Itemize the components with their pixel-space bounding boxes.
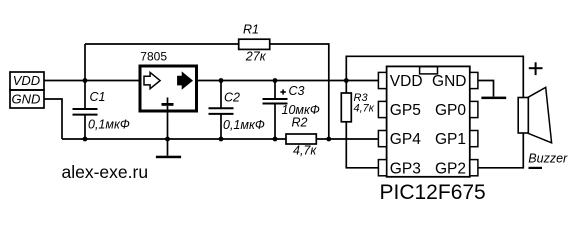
buzzer plus sign <box>529 62 543 75</box>
resistor R2 <box>286 134 316 144</box>
svg-text:GP3: GP3 <box>390 160 421 177</box>
svg-text:GP5: GP5 <box>390 102 421 119</box>
buzzer speaker cone <box>528 87 551 143</box>
wire R3 bottom to GP3 pin <box>346 122 378 168</box>
wire node A to GP4 pin <box>316 138 378 140</box>
svg-text:10мкФ: 10мкФ <box>282 103 320 117</box>
svg-text:C2: C2 <box>224 91 240 105</box>
capacitor C2 plates <box>209 108 234 114</box>
IC pin 8 GND tab <box>470 72 478 88</box>
svg-text:4,7к: 4,7к <box>354 103 375 115</box>
connector X1 VDD pin box <box>10 72 44 90</box>
wire VDD input: connector to 7805 input <box>44 80 140 82</box>
svg-text:0,1мкФ: 0,1мкФ <box>88 118 130 132</box>
wire GND pin to ground symbol <box>478 81 494 97</box>
node dot C1 top <box>83 78 88 83</box>
svg-text:GND: GND <box>432 73 466 90</box>
IC pin GP2 tab <box>470 160 478 176</box>
capacitor C3 polarity plus <box>280 89 285 94</box>
node dot C2 top <box>219 78 224 83</box>
node dot divider node A <box>326 137 331 142</box>
wire C2 vertical lower <box>220 114 222 139</box>
wire C2 vertical upper <box>220 81 222 109</box>
buzzer minus sign <box>529 167 543 169</box>
svg-text:GP4: GP4 <box>390 131 421 148</box>
wire top branch to R1 <box>85 43 239 45</box>
wire C3 vertical upper <box>274 81 276 100</box>
IC PIC12F675 body <box>387 66 470 176</box>
wire ground rail <box>62 138 286 140</box>
svg-text:PIC12F675: PIC12F675 <box>380 181 486 204</box>
resistor R1 <box>239 39 270 49</box>
node dot C3 top <box>273 78 278 83</box>
svg-text:4,7к: 4,7к <box>293 143 317 157</box>
regulator U1 internal ground pin <box>162 98 174 140</box>
wire R1 right to node A <box>270 44 329 139</box>
IC pin GP4 tab <box>378 131 386 147</box>
wire buzzer + feed riser and top run <box>346 56 523 97</box>
wire C1 vertical lower <box>84 115 86 139</box>
svg-text:R2: R2 <box>292 115 308 129</box>
regulator U1 output arrow (filled) <box>178 72 193 88</box>
IC pin GP5 tab <box>378 101 386 117</box>
svg-text:VDD: VDD <box>390 73 423 90</box>
svg-text:C1: C1 <box>90 90 106 104</box>
svg-text:0,1мкФ: 0,1мкФ <box>223 118 265 132</box>
node dot R3 top / buzzer feed <box>344 78 349 83</box>
junction dots <box>83 78 349 141</box>
ground symbol near PIC GND pin <box>481 97 506 100</box>
svg-text:alex-exe.ru: alex-exe.ru <box>62 162 149 182</box>
node dot C2 bottom <box>219 137 224 142</box>
IC PIC12F675 notch <box>420 67 438 74</box>
regulator U1 7805 body <box>140 66 197 111</box>
node dot C1 bottom <box>83 137 88 142</box>
capacitor C3 plates (electrolytic) <box>263 99 288 104</box>
wire buzzer - to GP2 pin <box>478 133 523 168</box>
svg-text:GP1: GP1 <box>435 131 466 148</box>
IC pin 1 VDD tab <box>378 72 386 88</box>
svg-text:GP0: GP0 <box>435 102 466 119</box>
buzzer speaker body <box>518 98 528 134</box>
IC pin GP0 tab <box>470 101 478 117</box>
svg-text:7805: 7805 <box>140 50 167 64</box>
svg-text:GND: GND <box>12 91 41 106</box>
IC pin GP1 tab <box>470 131 478 147</box>
node dot C3 bottom <box>273 137 278 142</box>
connector X1 GND pin box <box>10 90 44 108</box>
svg-text:GP2: GP2 <box>435 160 466 177</box>
svg-text:Buzzer: Buzzer <box>528 152 568 166</box>
wire C1 vertical upper <box>84 44 86 109</box>
wire GND: connector down to ground rail <box>44 99 62 139</box>
regulator U1 input arrow (hollow) <box>144 72 160 88</box>
IC pin GP3 tab <box>378 160 386 176</box>
svg-text:R1: R1 <box>243 23 259 37</box>
svg-text:VDD: VDD <box>13 73 40 88</box>
node dot 7805 gnd <box>165 137 170 142</box>
svg-text:C3: C3 <box>289 84 305 98</box>
capacitor C1 plates <box>73 109 98 115</box>
wire C3 vertical lower <box>274 104 276 140</box>
resistor R3 <box>341 93 351 122</box>
wire +5V rail: 7805 output to PIC VDD pin <box>196 80 378 82</box>
svg-text:27к: 27к <box>245 50 267 64</box>
ground symbol under 7805 <box>156 139 181 158</box>
